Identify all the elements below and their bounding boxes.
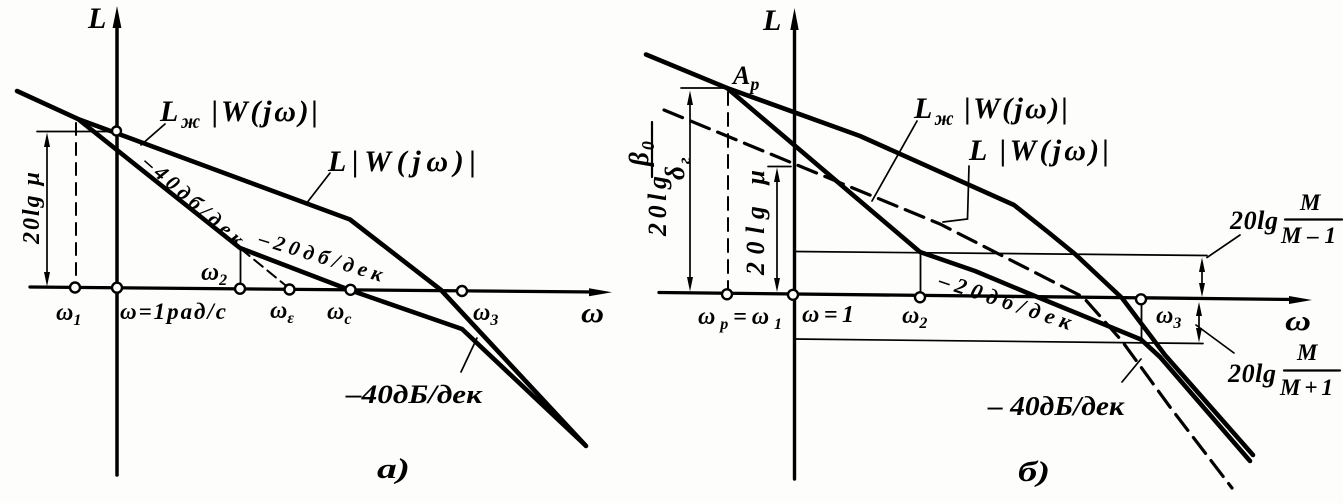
leader for L|W| label (plot a) [306,173,330,204]
leader 20lgM/(M-1) (plot b) [1207,235,1240,258]
node omega3 (plot a) [457,286,467,296]
svg-text:M–1: M–1 [1280,223,1336,248]
node circle on y-axis (plot a) [112,127,121,136]
svg-text:ω: ω [581,298,604,329]
rotated label 20lg mu (plot a) [19,172,45,245]
svg-text:ω=1рад/с: ω=1рад/с [120,299,226,324]
node omega_c (plot a) [346,285,356,295]
svg-text:L: L [87,2,106,35]
dimension double arrow 20lg mu (plot a) [46,141,48,279]
node omega1 (plot a) [70,283,80,293]
leader for Lzh label (plot b) [872,121,917,201]
svg-text:ω=1: ω=1 [802,302,854,328]
svg-text:20lg: 20lg [1227,359,1276,388]
incoming line to Ap (plot b) [646,55,727,89]
node omega=1 (plot b) [788,290,798,300]
node omega2 (plot b) [915,292,925,302]
svg-text:б): б) [1018,457,1050,488]
dashed -40 continuation to omega_eps (plot a) [241,249,290,289]
x-axis (plot b) [659,293,1295,300]
rotated slope label -20db/dek (plot b) [935,267,1076,335]
dashed curve L|W(jw)| (plot b) [664,110,1232,488]
rotated slope label -20db/dek (plot a) [255,226,387,287]
dimension double arrow 20lg beta (plot b) [689,99,691,283]
curve L|W(jw)| (plot a) [17,91,586,446]
leader 20lgM/(M+1) (plot b) [1196,325,1234,353]
curve L solid uncorrected branch (plot b) [727,88,1253,455]
svg-text:20lg: 20lg [1229,206,1278,235]
node omega_p (plot b) [722,289,732,299]
y-axis (plot b) [793,24,796,479]
svg-text:а): а) [377,454,410,485]
svg-text:20lg: 20lg [643,176,672,237]
svg-text:M+1: M+1 [1279,375,1333,400]
y-axis (plot a) [115,22,119,475]
rotated label 20lg mu (plot b) [741,170,770,276]
svg-text:M: M [1299,190,1322,215]
node omega2 (plot a) [235,284,245,294]
double arrow M+1 (plot b) [1198,309,1200,335]
node omega3 (plot b) [1136,294,1146,304]
vertical tick at omega2 (plot a) [240,250,242,287]
leader for L|W| label (plot b) [943,166,969,222]
leader for Lzh label (plot a) [141,124,165,145]
dimension line at Ap (plot b) [681,87,724,89]
leader for -40dB/dek (plot b) [1122,359,1141,382]
node omega=1 (plot a) [112,283,122,293]
svg-text:– 40дБ/дек: – 40дБ/дек [987,391,1126,421]
curve Lzh desired (plot b) [727,88,1250,461]
curve Lzh desired (plot a) [78,119,584,444]
band bottom line (plot b) [794,339,1203,344]
band top line (plot b) [795,252,1207,256]
svg-text:L: L [762,4,781,37]
dashed vertical at omega1 (plot a) [75,123,77,284]
leader for -40dB/dek (plot a) [461,338,477,372]
rotated slope label -40db/dek (plot a) [137,150,250,252]
top tick for 20lg mu (plot b) [768,166,791,168]
vertical tick at omega3 (plot b) [1141,301,1143,341]
node omega_eps (plot a) [285,285,295,295]
dashed vertical below Ap (plot b) [727,92,729,290]
svg-text:–40дБ/дек: –40дБ/дек [345,380,483,409]
double arrow M-1 (plot b) [1201,265,1203,290]
x-axis (plot a) [30,287,596,292]
vertical tick at omega2 (plot b) [920,253,922,294]
dimension top line 20lg mu (plot a) [37,131,120,133]
dimension double arrow 20lg mu (plot b) [776,176,778,284]
svg-text:M: M [1296,340,1319,365]
svg-text:ω: ω [1285,306,1311,337]
rotated label 20lg beta0/deltag (plot b) [643,176,672,237]
